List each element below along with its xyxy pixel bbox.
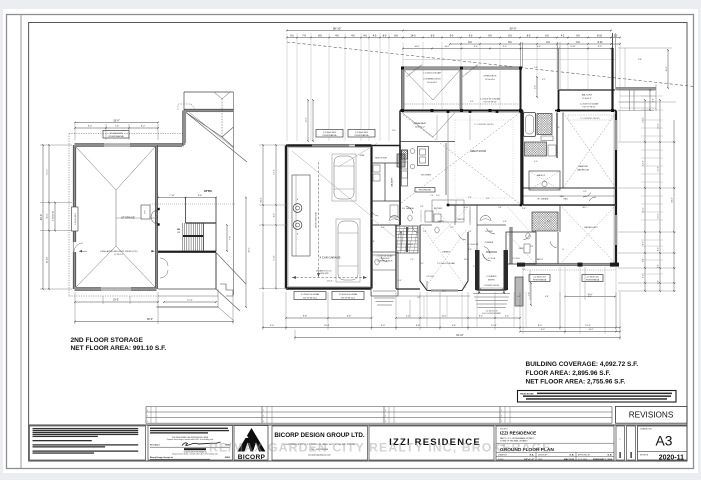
- butler pantry: [432, 200, 464, 222]
- left plan upper right roof block: [184, 91, 234, 93]
- bedroom2 window sill: [525, 263, 612, 265]
- bath2 fixtures: [526, 233, 530, 239]
- svg-text:19'-0": 19'-0": [113, 299, 119, 302]
- attic walls: [185, 198, 187, 224]
- svg-text:BICORP DESIGN GROUP LTD.: BICORP DESIGN GROUP LTD.: [274, 432, 365, 439]
- balcony posts: [557, 109, 560, 112]
- stair treads: [182, 223, 184, 251]
- svg-text:2-1 3/4 B: 2-1 3/4 B: [488, 258, 496, 260]
- svg-text:4'-0": 4'-0": [274, 213, 276, 217]
- revisions box: [616, 407, 688, 424]
- svg-text:19'-4": 19'-4": [324, 325, 330, 327]
- svg-text:2-1 3/4x9 1/4 GULAM: 2-1 3/4x9 1/4 GULAM: [301, 293, 320, 296]
- svg-text:9'-8": 9'-8": [638, 59, 642, 61]
- svg-text:2-1 3/4x9 1/4 B: 2-1 3/4x9 1/4 B: [323, 132, 337, 134]
- svg-text:3'-2": 3'-2": [542, 79, 546, 81]
- svg-text:9-0: 9-0: [469, 34, 473, 37]
- svg-text:BEDROOM: BEDROOM: [577, 170, 588, 172]
- svg-text:4-2: 4-2: [561, 34, 565, 37]
- svg-text:BEDROOM 2: BEDROOM 2: [584, 227, 598, 229]
- svg-text:2'-2": 2'-2": [423, 231, 427, 233]
- svg-text:3'-8": 3'-8": [468, 249, 472, 251]
- svg-text:11'-10": 11'-10": [47, 257, 49, 264]
- architect statement block: [148, 426, 233, 461]
- svg-text:D.B.: D.B.: [570, 455, 575, 457]
- roof overhang dashed corner: [178, 104, 191, 110]
- svg-text:6'-0": 6'-0": [470, 101, 474, 103]
- revision table: [146, 406, 612, 408]
- garage width dashed arrow: [292, 277, 367, 279]
- svg-text:4'-0": 4'-0": [398, 280, 402, 282]
- garage door opening: [312, 145, 349, 147]
- svg-text:8'-0": 8'-0": [658, 247, 660, 251]
- svg-text:HALL: HALL: [564, 198, 569, 201]
- great room bottom wall: [448, 204, 521, 206]
- more bottom extension verticals: [426, 292, 428, 328]
- svg-text:9'-8": 9'-8": [416, 325, 421, 327]
- svg-text:2-1 3/4x9 1/4 V.GULAM: 2-1 3/4x9 1/4 V.GULAM: [480, 98, 500, 101]
- svg-text:14'-0": 14'-0": [441, 316, 446, 318]
- svg-text:7'-6": 7'-6": [230, 236, 232, 241]
- svg-text:COVERED DECK: COVERED DECK: [423, 79, 441, 81]
- svg-text:REVISION: REVISION: [640, 454, 649, 456]
- svg-text:OPEN DECK: OPEN DECK: [484, 76, 497, 78]
- svg-text:9'-8": 9'-8": [303, 316, 308, 318]
- balcony roof band extension: [616, 87, 656, 89]
- hallway lines: [420, 224, 432, 226]
- svg-text:2-1 3/4x9 1/4 B: 2-1 3/4x9 1/4 B: [533, 277, 546, 279]
- svg-text:9'-2": 9'-2": [653, 98, 655, 102]
- svg-text:9'-0": 9'-0": [583, 191, 587, 193]
- entry step arrows: [478, 288, 481, 294]
- general notes block: [30, 426, 146, 460]
- svg-text:4'-0": 4'-0": [270, 325, 275, 327]
- svg-text:8'-10x9'-2": 8'-10x9'-2": [582, 98, 592, 100]
- left plan bottom window band: [101, 287, 131, 290]
- svg-text:4'-0x7'-0 P.EXP.GF.BSMT: 4'-0x7'-0 P.EXP.GF.BSMT: [482, 313, 501, 315]
- left plan bottom dims: [75, 301, 158, 303]
- drawing number box: [638, 426, 688, 460]
- bedroom2 lower dim chain: [530, 283, 532, 305]
- left plan storage room walls: [75, 144, 185, 147]
- svg-text:GREAT ROOM: GREAT ROOM: [470, 150, 486, 153]
- great room top wall posts: [447, 110, 450, 113]
- svg-text:POWDER: POWDER: [485, 242, 494, 244]
- left plan far right dim: [245, 198, 247, 308]
- svg-text:RE/MAX GARDEN CITY REALTY INC,: RE/MAX GARDEN CITY REALTY INC, BROKERAGE: [209, 441, 552, 455]
- svg-text:9'-0": 9'-0": [141, 126, 146, 128]
- svg-text:BALCONY: BALCONY: [582, 94, 593, 97]
- svg-text:10'-0": 10'-0": [643, 207, 645, 212]
- garage car 1: [332, 154, 356, 201]
- svg-text:7'-10": 7'-10": [169, 195, 175, 197]
- svg-text:6'-0": 6'-0": [643, 274, 645, 278]
- roof hip big diagonals: [186, 113, 222, 138]
- svg-text:8'-0": 8'-0": [588, 296, 592, 298]
- svg-text:50'-0": 50'-0": [510, 26, 517, 30]
- closet double door arcs: [151, 210, 158, 224]
- left plan fascia label box: [103, 131, 129, 139]
- svg-text:5'-0": 5'-0": [381, 325, 386, 327]
- svg-text:10'-0": 10'-0": [658, 213, 660, 218]
- svg-text:11'-4": 11'-4": [491, 325, 497, 327]
- narrow spare boxes: [616, 426, 625, 460]
- truss notes box: [518, 391, 677, 403]
- svg-text:ATTIC: ATTIC: [204, 189, 213, 193]
- svg-text:9'-8": 9'-8": [347, 316, 352, 318]
- mud laundry strip walls: [372, 145, 401, 147]
- den window wall: [510, 227, 512, 264]
- svg-text:FEBRUARY 1, 2020: FEBRUARY 1, 2020: [593, 458, 613, 461]
- svg-text:98'-10": 98'-10": [333, 26, 341, 30]
- master bedroom: [562, 113, 564, 189]
- svg-text:2-1 3/4x9 1/4: 2-1 3/4x9 1/4: [53, 211, 55, 221]
- svg-text:PLOT DATE: PLOT DATE: [578, 458, 588, 461]
- svg-text:MAY 2019: MAY 2019: [564, 458, 575, 461]
- thick wall extension columns: [520, 42, 522, 68]
- svg-text:6'-8": 6'-8": [545, 296, 549, 298]
- svg-text:TRUSS NOTES:: TRUSS NOTES:: [520, 393, 534, 395]
- right plan small fixtures wc: [408, 215, 412, 221]
- svg-text:STORAGE: STORAGE: [121, 215, 135, 219]
- svg-text:6-0: 6-0: [450, 34, 454, 37]
- master bath tub: [524, 113, 536, 137]
- mud closet hatch: [397, 154, 405, 167]
- svg-text:6'-0": 6'-0": [658, 264, 660, 268]
- svg-text:8-10: 8-10: [597, 34, 603, 37]
- svg-text:9'x9' OP GF 10': 9'x9' OP GF 10': [483, 102, 497, 104]
- svg-text:240V SUB: 240V SUB: [320, 273, 330, 275]
- left cluster inner dim chain: [307, 100, 309, 141]
- bicorp logo mountain: [238, 428, 266, 452]
- svg-text:7'-0": 7'-0": [522, 269, 526, 271]
- svg-text:FLOOR AREA: 2,895.96 S.F.: FLOOR AREA: 2,895.96 S.F.: [526, 370, 611, 377]
- right plan interior door arcs: [406, 206, 413, 213]
- svg-text:2-1 3/4x9 1/4 B: 2-1 3/4x9 1/4 B: [110, 133, 124, 135]
- exterior window bands right wall: [615, 120, 617, 150]
- svg-text:PANTRY: PANTRY: [457, 218, 465, 221]
- covered porch: [371, 252, 398, 296]
- svg-text:P.F.UP.GF.UP: P.F.UP.GF.UP: [380, 258, 390, 260]
- svg-text:HALL: HALL: [560, 195, 565, 198]
- svg-text:ENTRY: ENTRY: [488, 280, 495, 282]
- svg-text:17'-2": 17'-2": [47, 169, 49, 175]
- attic right dim: [226, 225, 228, 251]
- svg-text:4 CAR GARAGE: 4 CAR GARAGE: [320, 256, 341, 260]
- breakfast room: [400, 141, 455, 143]
- left binding margin line: [20, 15, 22, 469]
- svg-text:DRAWING NO.: DRAWING NO.: [640, 428, 653, 431]
- left plan left dim column outer: [42, 145, 44, 289]
- garage car 2: [336, 219, 360, 282]
- right margin dim chains: [629, 90, 631, 111]
- svg-text:WINE: WINE: [360, 155, 365, 157]
- hall door arcs: [583, 193, 591, 198]
- svg-text:6'-2": 6'-2": [547, 221, 551, 223]
- open deck inner dim: [536, 77, 538, 97]
- svg-text:2ND FLOOR STORAGE: 2ND FLOOR STORAGE: [71, 337, 144, 344]
- right plan top dim row3 partial: [450, 43, 620, 45]
- svg-text:9'-0": 9'-0": [88, 126, 93, 128]
- svg-text:9-2: 9-2: [290, 34, 294, 37]
- bottom dim extension verticals: [262, 292, 264, 330]
- svg-text:(P.F.EXP.FASCIA): (P.F.EXP.FASCIA): [108, 135, 123, 138]
- svg-text:2-1 3/4x9 1/4 GULAM: 2-1 3/4x9 1/4 GULAM: [580, 103, 599, 106]
- svg-text:D.B.: D.B.: [608, 455, 613, 457]
- left plan lower right room: [158, 252, 216, 254]
- bedroom2 left wall lower: [557, 232, 559, 264]
- garage drive-through dashed arrow: [318, 162, 320, 277]
- svg-text:12'-4": 12'-4": [585, 325, 591, 327]
- svg-text:2-1 3/4x9 1/4 GULAM: 2-1 3/4x9 1/4 GULAM: [423, 72, 441, 75]
- left plan eave dashed line: [69, 133, 183, 135]
- svg-text:9'-0": 9'-0": [503, 46, 507, 48]
- svg-text:A3: A3: [656, 434, 673, 449]
- right plan extension verticals right cluster: [536, 42, 538, 89]
- lower right room door arcs: [160, 258, 168, 266]
- svg-text:11'-0": 11'-0": [187, 300, 193, 302]
- garage outer walls: [286, 144, 372, 146]
- svg-text:8'-0": 8'-0": [479, 316, 483, 318]
- svg-text:MAKE UP: MAKE UP: [537, 174, 546, 177]
- svg-text:16'-0": 16'-0": [442, 291, 447, 293]
- covered entry walls: [477, 252, 506, 290]
- svg-text:9x9 OP GF 10-2: 9x9 OP GF 10-2: [341, 298, 355, 300]
- covered deck walls: [401, 68, 403, 111]
- svg-text:2-1 3/4x9 1/4 B: 2-1 3/4x9 1/4 B: [586, 277, 599, 279]
- svg-text:DRIVE-THROUGH: DRIVE-THROUGH: [316, 211, 318, 228]
- roof notch step: [220, 284, 233, 296]
- svg-text:7'-4": 7'-4": [430, 195, 434, 197]
- right plan top dim row2: [287, 37, 620, 39]
- svg-text:8-10: 8-10: [598, 41, 603, 44]
- svg-text:9'-6": 9'-6": [198, 195, 203, 197]
- provisions label box: [415, 188, 435, 193]
- svg-text:4'-8": 4'-8": [503, 221, 507, 223]
- roof valley V marker top: [214, 92, 222, 99]
- svg-text:40'-0": 40'-0": [40, 214, 43, 220]
- svg-text:IZZI RESIDENCE: IZZI RESIDENCE: [500, 431, 536, 436]
- storage door arcs small box: [141, 205, 150, 219]
- svg-text:4-0: 4-0: [335, 34, 339, 37]
- svg-text:2-1 3/4x9 1/4 GULAM: 2-1 3/4x9 1/4 GULAM: [339, 293, 358, 296]
- double door arcs mud: [389, 216, 400, 222]
- left margin dim chains: [262, 145, 264, 289]
- svg-text:6'-0": 6'-0": [643, 258, 645, 262]
- bicorp logo box: [234, 426, 268, 461]
- stair rail: [183, 235, 203, 237]
- svg-text:NET FLOOR AREA: 991.10 S.F.: NET FLOOR AREA: 991.10 S.F.: [71, 345, 167, 352]
- svg-text:APPROVED BY: APPROVED BY: [578, 453, 591, 456]
- svg-text:KITCHEN: KITCHEN: [421, 175, 431, 177]
- svg-text:COVERED: COVERED: [487, 276, 497, 278]
- svg-text:5-0: 5-0: [508, 34, 512, 37]
- left plan left wall niche label: [72, 207, 79, 231]
- svg-text:MASTER: MASTER: [578, 165, 588, 168]
- right plan upper dims small: [624, 48, 626, 88]
- svg-text:8-0: 8-0: [383, 34, 387, 37]
- deck posts: [401, 109, 404, 112]
- svg-text:2-1 3/4x9 1/4 B: 2-1 3/4x9 1/4 B: [355, 132, 369, 134]
- garage top-right roof diagonal: [338, 144, 377, 168]
- entry door arc: [483, 254, 491, 261]
- project info box: [496, 426, 614, 460]
- mid band small dim lines: [420, 210, 422, 222]
- bedroom2 extension verticals: [522, 267, 524, 334]
- entry side pilasters: [475, 250, 480, 290]
- covered deck V braces: [404, 70, 433, 100]
- signature: [182, 442, 221, 446]
- svg-text:22'-6": 22'-6": [249, 247, 251, 252]
- svg-text:9'x9' OP GF 10': 9'x9' OP GF 10': [582, 107, 596, 109]
- svg-text:2-1 3/4x9 1/4 B: 2-1 3/4x9 1/4 B: [486, 311, 498, 313]
- svg-text:94'-10": 94'-10": [456, 334, 464, 337]
- svg-text:DINING: DINING: [442, 252, 450, 254]
- svg-text:19'-4": 19'-4": [327, 281, 333, 283]
- master bath fixtures: [541, 136, 553, 141]
- svg-text:6'-0": 6'-0": [505, 316, 509, 318]
- deck fascia upper line: [403, 59, 616, 61]
- svg-text:8-0: 8-0: [527, 34, 531, 37]
- svg-text:10' COFFERED CEILING: 10' COFFERED CEILING: [580, 118, 600, 120]
- deck dim row: [403, 48, 611, 50]
- svg-text:Bicorp Design Group Ltd.: Bicorp Design Group Ltd.: [150, 456, 173, 459]
- svg-text:12' COFFERED CEILING: 12' COFFERED CEILING: [474, 124, 494, 126]
- svg-text:29813: 29813: [225, 457, 230, 459]
- svg-text:3'-0": 3'-0": [392, 130, 396, 132]
- right plan extension verticals left cluster: [286, 33, 288, 141]
- svg-text:34'-0": 34'-0": [672, 197, 674, 203]
- svg-text:38'-0": 38'-0": [147, 318, 153, 321]
- svg-text:7-9: 7-9: [302, 34, 306, 37]
- master bath tile hatch 1: [537, 114, 552, 135]
- left plan bottom small ticks: [102, 296, 104, 304]
- title block outline: [29, 424, 687, 426]
- balcony walls: [559, 89, 616, 91]
- svg-text:16'-0": 16'-0": [666, 66, 668, 71]
- lower right roof diagonals: [216, 253, 246, 285]
- svg-text:14'-0": 14'-0": [588, 329, 593, 331]
- garage gulam label boxes: [294, 292, 326, 300]
- svg-text:2-1 3/4x9 1/4 GULAM: 2-1 3/4x9 1/4 GULAM: [437, 262, 455, 265]
- master bath tile hatch 2: [525, 142, 547, 156]
- svg-text:P.F.EXP.FASCIA: P.F.EXP.FASCIA: [586, 279, 600, 282]
- garage roof diagonal faint: [292, 151, 371, 216]
- svg-text:9-0: 9-0: [488, 34, 492, 37]
- svg-text:bicorpdesign@gmail.com: bicorpdesign@gmail.com: [308, 454, 331, 456]
- svg-text:UFTANB @ R.O.D.: UFTANB @ R.O.D.: [316, 270, 333, 273]
- svg-text:5'-8": 5'-8": [534, 67, 538, 69]
- svg-text:BATH 2: BATH 2: [537, 258, 543, 261]
- svg-text:16'-4": 16'-4": [643, 117, 645, 122]
- svg-text:2-1 3/4x9 1/4: 2-1 3/4x9 1/4: [468, 244, 478, 246]
- svg-text:DESIGN BY: DESIGN BY: [538, 454, 548, 456]
- right plan bottom dim rows: [286, 317, 372, 319]
- left plan top window band: [104, 143, 130, 146]
- svg-text:BUTLER: BUTLER: [434, 208, 442, 210]
- svg-text:COFFERED CEILING: COFFERED CEILING: [484, 285, 500, 287]
- balcony right dim: [649, 90, 651, 110]
- svg-text:@ 24 O.C.: @ 24 O.C.: [114, 254, 124, 256]
- entry right hatched pilaster: [515, 277, 523, 306]
- svg-text:19'-0": 19'-0": [113, 119, 120, 123]
- right plan extension verticals deck cluster: [402, 42, 404, 68]
- dining dashed X: [423, 228, 466, 288]
- svg-text:P.ENG APPROVED ROOF TRUSS (TYP: P.ENG APPROVED ROOF TRUSS (TYP.): [100, 250, 138, 253]
- double door arcs foyer: [480, 216, 491, 222]
- svg-text:2-1 3/4 B: 2-1 3/4 B: [512, 258, 520, 260]
- svg-text:5'-6": 5'-6": [468, 231, 472, 233]
- svg-text:2'-8": 2'-8": [468, 197, 472, 199]
- svg-text:8-0: 8-0: [318, 34, 322, 37]
- svg-text:REVISIONS: REVISIONS: [629, 410, 674, 419]
- kitchen walls: [399, 111, 401, 226]
- garage fascia label boxes: [316, 130, 343, 138]
- svg-text:12'-2": 12'-2": [658, 166, 660, 171]
- svg-text:W.I.C.: W.I.C.: [583, 207, 588, 209]
- svg-text:6'-0": 6'-0": [486, 198, 490, 200]
- bedroom2 closet hatch: [532, 212, 558, 231]
- left plan second dim row: [75, 127, 158, 129]
- left plan 2nd floor storage: top dimension row: [75, 122, 158, 124]
- bedroom2 below dotted line: [523, 269, 616, 271]
- svg-text:2'-8": 2'-8": [371, 241, 375, 243]
- svg-text:PART LOT 2, SPRINGBANK STREET: PART LOT 2, SPRINGBANK STREET: [500, 437, 535, 440]
- svg-text:16R UP: 16R UP: [407, 244, 414, 246]
- svg-text:6'-0": 6'-0": [658, 280, 660, 284]
- svg-text:5'-0": 5'-0": [406, 316, 410, 318]
- svg-text:5'-8": 5'-8": [498, 207, 502, 209]
- svg-text:8'-0": 8'-0": [643, 241, 645, 245]
- master wall column: [522, 111, 524, 206]
- svg-text:14'-2": 14'-2": [274, 169, 276, 174]
- svg-text:2020-11: 2020-11: [659, 454, 684, 461]
- stair hatch diagonal: [396, 226, 400, 253]
- svg-text:1/4"=1'-0": 1/4"=1'-0": [524, 458, 534, 461]
- svg-text:LAUNDRY: LAUNDRY: [391, 177, 394, 187]
- svg-text:3'-0": 3'-0": [420, 206, 424, 208]
- bicorp design group box: [272, 426, 368, 460]
- svg-text:W.I. GARAGE: W.I. GARAGE: [537, 198, 549, 201]
- svg-text:12'-2": 12'-2": [643, 160, 645, 165]
- stairs main: [396, 226, 418, 253]
- svg-text:14-0: 14-0: [410, 34, 416, 37]
- svg-text:9'-0": 9'-0": [538, 325, 543, 327]
- mid band extra dashed diagonals: [432, 205, 470, 248]
- svg-text:PROVISIONS: PROVISIONS: [419, 190, 432, 192]
- svg-text:P.F.EXP.FASCIA: P.F.EXP.FASCIA: [355, 134, 370, 137]
- long dashed sight line: [287, 42, 694, 87]
- attic dotted ceiling line: [150, 203, 235, 205]
- porch steps: [374, 297, 395, 299]
- kitchen counters left: [402, 150, 408, 186]
- svg-text:6-0: 6-0: [545, 34, 549, 37]
- right plan top total dim: [287, 30, 611, 32]
- svg-text:3'-6": 3'-6": [530, 246, 534, 248]
- client name box: [369, 426, 494, 460]
- kitchen island: [418, 147, 429, 166]
- svg-text:5'-0": 5'-0": [417, 297, 421, 299]
- attic dim row: [158, 197, 216, 199]
- left plan roof hip diagonals: [76, 147, 116, 190]
- svg-text:34'-0": 34'-0": [261, 197, 263, 203]
- den room: [506, 232, 536, 264]
- svg-text:P.F.EXP.FASCIA: P.F.EXP.FASCIA: [533, 279, 547, 282]
- svg-text:7'-6": 7'-6": [115, 126, 120, 128]
- svg-text:DEN: DEN: [519, 248, 524, 250]
- svg-text:9-0: 9-0: [576, 34, 580, 37]
- svg-text:14'-0x14'-0: 14'-0x14'-0: [485, 79, 496, 81]
